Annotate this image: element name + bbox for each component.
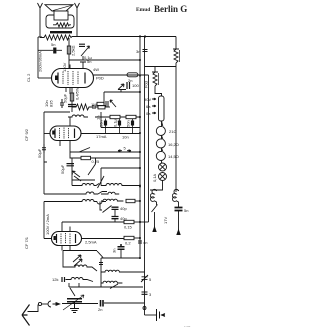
coil row y193b xyxy=(101,192,119,194)
wire tube2 anode xyxy=(81,133,140,135)
resistor 2.5k box xyxy=(67,46,70,54)
wire grid riser x83 xyxy=(82,66,84,69)
cathode resistor box xyxy=(70,93,73,101)
svg-text:5n: 5n xyxy=(51,42,55,47)
speaker terminal left xyxy=(38,3,43,8)
cap 50uF left xyxy=(42,144,46,153)
svg-text:5: 5 xyxy=(149,277,152,282)
box1 outline xyxy=(44,162,47,194)
svg-text:CF 9/2: CF 9/2 xyxy=(24,128,29,141)
res 1M group xyxy=(103,92,105,104)
wire tube left to bus xyxy=(38,77,52,79)
coil2 xyxy=(152,72,162,96)
arrows into box xyxy=(152,98,156,100)
x179 cap + line xyxy=(175,208,183,211)
wire y258 xyxy=(101,257,140,259)
svg-text:14,5Ω: 14,5Ω xyxy=(168,154,179,159)
antenna symbol xyxy=(22,305,30,326)
vert coil right xyxy=(172,189,178,205)
x101 vertical xyxy=(99,258,103,287)
wire y66 xyxy=(145,63,176,72)
switch x155 xyxy=(152,205,158,229)
row y201 xyxy=(44,200,106,205)
box stubs above var cap xyxy=(69,283,79,287)
switch to var cap xyxy=(70,288,75,296)
wire y150 xyxy=(70,151,140,153)
svg-text:100V / 2mA: 100V / 2mA xyxy=(45,214,50,235)
rail corner to ground xyxy=(145,314,157,316)
svg-text:0,2: 0,2 xyxy=(125,241,131,246)
diode arrows det2 xyxy=(72,171,81,181)
svg-text:1n: 1n xyxy=(96,116,101,120)
svg-text:100: 100 xyxy=(132,83,139,88)
x101 switch xyxy=(98,168,105,188)
coil row y281 left xyxy=(66,278,94,282)
trimmer cap on rail xyxy=(141,275,148,282)
svg-text:0a: 0a xyxy=(146,111,151,116)
svg-text:130V: 130V xyxy=(62,62,67,72)
svg-text:5n: 5n xyxy=(184,208,188,213)
caps row y124 xyxy=(106,119,133,134)
HT right coil1 xyxy=(175,37,177,50)
speaker LS cone xyxy=(45,5,73,11)
bottom main wire xyxy=(62,303,98,305)
cap A xyxy=(80,56,86,66)
svg-text:12k: 12k xyxy=(52,277,58,282)
svg-text:CL 2: CL 2 xyxy=(26,73,31,82)
diode arrows xyxy=(73,255,82,266)
vertical x148.5 xyxy=(148,75,150,222)
svg-text:Berlin G: Berlin G xyxy=(154,4,187,14)
svg-text:2n: 2n xyxy=(98,307,102,312)
vert coil left xyxy=(150,189,156,205)
cap 100p xyxy=(127,82,130,89)
svg-text:6a: 6a xyxy=(146,104,151,109)
res row y222 xyxy=(62,221,124,223)
heater loops xyxy=(156,121,165,135)
detector loop top wire xyxy=(63,251,97,259)
left vert x44 xyxy=(43,112,45,162)
small box xyxy=(98,106,105,109)
switch on y150 xyxy=(79,148,90,153)
svg-text:2,5mA: 2,5mA xyxy=(85,240,97,245)
switch row y207 left xyxy=(100,202,102,211)
junction dots x140 xyxy=(139,59,141,259)
coil y117 xyxy=(68,115,88,117)
lamp 1 xyxy=(161,161,163,164)
cap at 62 xyxy=(60,99,64,108)
svg-text:50µF: 50µF xyxy=(60,164,65,174)
svg-text:21Ω: 21Ω xyxy=(169,129,176,134)
wire anode out y75 xyxy=(94,74,149,76)
coil row y186 xyxy=(101,184,140,186)
svg-text:17V: 17V xyxy=(163,217,168,224)
svg-text:3: 3 xyxy=(149,292,152,297)
svg-text:2,5kΩ: 2,5kΩ xyxy=(71,45,76,56)
cap at 70 y165 xyxy=(67,164,75,166)
vert x177 down xyxy=(175,67,177,193)
resistor oval 2n xyxy=(127,73,138,77)
switch wire y287 xyxy=(69,286,143,288)
switch diag mid xyxy=(110,284,118,289)
svg-text:CF 7/1: CF 7/1 xyxy=(24,236,29,249)
row y183 coil xyxy=(72,158,95,186)
arrow 5 xyxy=(118,150,131,152)
cathode cap xyxy=(68,105,76,107)
coil row y200 + res xyxy=(101,199,123,201)
plug circles xyxy=(38,302,41,305)
svg-text:50µF: 50µF xyxy=(63,93,68,103)
node at 145 xyxy=(144,35,146,38)
svg-text:P0D: P0D xyxy=(96,76,104,81)
coil row y283 right xyxy=(101,281,122,283)
svg-text:835: 835 xyxy=(49,100,54,107)
var cap arrow xyxy=(63,295,84,310)
svg-text:50n: 50n xyxy=(126,120,131,127)
svg-text:10n: 10n xyxy=(122,135,129,140)
wire cathode riser x72 xyxy=(71,88,73,112)
cap right of zigzag xyxy=(93,105,95,109)
zigzag resistor mid xyxy=(72,104,93,110)
wire HT bus y38 to right xyxy=(72,36,176,38)
coil row y267 left xyxy=(63,258,97,271)
coil row y272 right xyxy=(101,270,144,272)
speaker terminal right xyxy=(75,3,80,8)
plug arrow bottom x155 xyxy=(153,227,156,232)
svg-text:0,15: 0,15 xyxy=(124,225,133,230)
svg-text:200V/36mA: 200V/36mA xyxy=(38,51,43,72)
cap 2n bottom xyxy=(101,300,104,307)
tube2 left wire xyxy=(44,133,50,135)
svg-text:···~: ···~ xyxy=(184,324,191,329)
long vertical x144.5 xyxy=(144,37,146,316)
tube EL output xyxy=(52,65,94,95)
res box y158 xyxy=(70,152,81,158)
tube EF mid xyxy=(50,117,81,152)
tube CF7 xyxy=(52,222,82,246)
trimmer arrow top xyxy=(79,44,85,46)
svg-text:0,4/5W: 0,4/5W xyxy=(75,87,80,100)
svg-text:90V: 90V xyxy=(144,97,151,102)
stacked caps 40p xyxy=(112,207,119,219)
output transformer core xyxy=(50,31,72,33)
row y193 xyxy=(44,192,107,195)
svg-text:1M: 1M xyxy=(91,102,97,107)
tall box xyxy=(159,96,165,121)
var capacitor plates xyxy=(67,299,82,302)
svg-text:0,1µ: 0,1µ xyxy=(113,118,118,127)
speaker magnet xyxy=(54,11,68,20)
svg-text:17mA: 17mA xyxy=(96,134,107,139)
ground below var cap xyxy=(70,302,79,313)
title Emud Berlin G xyxy=(136,4,187,14)
voice coil resistor xyxy=(53,23,71,27)
lamp 2 xyxy=(159,173,167,181)
wire anode riser x69 xyxy=(68,38,70,69)
ground right xyxy=(157,309,166,321)
svg-text:16,2Ω: 16,2Ω xyxy=(168,142,179,147)
wire tube3 anode xyxy=(82,238,125,240)
plug hook bottom xyxy=(143,307,146,310)
cap 4n on x140 xyxy=(138,241,142,243)
wire screen y60 xyxy=(69,59,140,61)
left vert 2 xyxy=(44,202,52,239)
voice coil box xyxy=(46,15,74,28)
resistor boxes y117 xyxy=(95,116,140,118)
diode detector pair xyxy=(118,84,126,90)
svg-text:Emud: Emud xyxy=(136,7,150,13)
svg-text:40p: 40p xyxy=(120,206,127,211)
wire right terminal down xyxy=(76,8,78,37)
svg-text:4n: 4n xyxy=(143,240,147,245)
svg-text:50µF: 50µF xyxy=(37,148,42,158)
cap 3n on rail xyxy=(142,292,148,294)
svg-text:0,1A: 0,1A xyxy=(152,173,157,182)
node at 140 xyxy=(139,35,141,38)
lamp down wire xyxy=(150,181,163,191)
primary winding zigzag xyxy=(40,35,72,40)
tube3 risers xyxy=(62,246,70,251)
wire y127.5 xyxy=(101,112,140,128)
wire y112 xyxy=(44,111,70,113)
wire left bus x38 xyxy=(38,37,42,78)
long vertical x140 xyxy=(139,37,141,259)
svg-text:4W: 4W xyxy=(93,67,99,72)
wire y92 xyxy=(104,89,140,92)
capacitor 5n xyxy=(53,48,56,54)
wire left terminal down xyxy=(39,8,41,37)
svg-text:3n: 3n xyxy=(112,249,117,253)
right block wire y168 xyxy=(101,167,140,169)
switch det xyxy=(97,251,103,258)
det switch xyxy=(88,158,96,175)
svg-text:5: 5 xyxy=(124,146,127,151)
antenna cap mid xyxy=(118,244,125,249)
cap 3n on x140 xyxy=(143,50,148,52)
